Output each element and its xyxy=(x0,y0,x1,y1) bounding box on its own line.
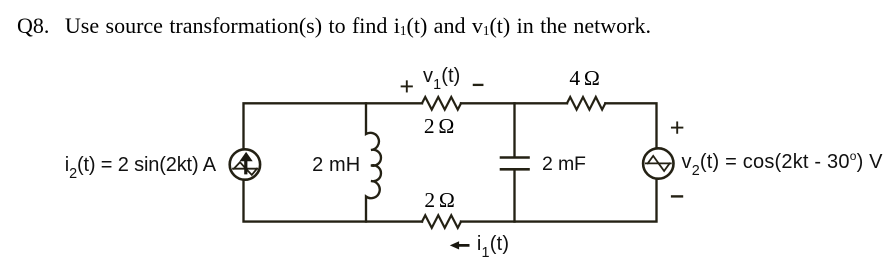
minus sign near v1 xyxy=(474,84,482,86)
plus sign near v1 xyxy=(402,81,412,91)
label R top value xyxy=(424,116,454,138)
label v2 source xyxy=(682,152,883,172)
label v1 xyxy=(423,66,460,86)
current source I1 circle xyxy=(230,149,260,179)
label 2mF xyxy=(542,155,586,175)
minus sign near V2 xyxy=(672,195,682,197)
wire top-left segment xyxy=(244,103,423,149)
voltage source V2 circle xyxy=(643,148,673,178)
plus sign near V2 xyxy=(672,122,683,132)
current source sine symbol xyxy=(233,162,257,175)
voltage source sine symbol xyxy=(646,156,671,171)
resistor R top 2ohm xyxy=(422,97,461,110)
wire bottom-right segment xyxy=(461,180,657,222)
title xyxy=(17,15,651,37)
label 2mH xyxy=(312,155,360,175)
capacitor C 2mF xyxy=(501,103,529,221)
inductor L 2mH xyxy=(366,103,381,221)
label i1 xyxy=(477,234,509,254)
current source arrow xyxy=(240,152,253,175)
wire top-middle segment xyxy=(461,102,567,104)
label i2 source xyxy=(65,155,216,175)
wire top-right segment xyxy=(605,103,656,147)
label R bottom value xyxy=(424,190,454,212)
current arrow i1 xyxy=(450,241,470,249)
label R2 value xyxy=(569,68,599,90)
resistor R2 4ohm xyxy=(567,97,605,110)
resistor R bottom 2ohm xyxy=(422,215,461,228)
wire bottom-left segment xyxy=(244,180,423,222)
